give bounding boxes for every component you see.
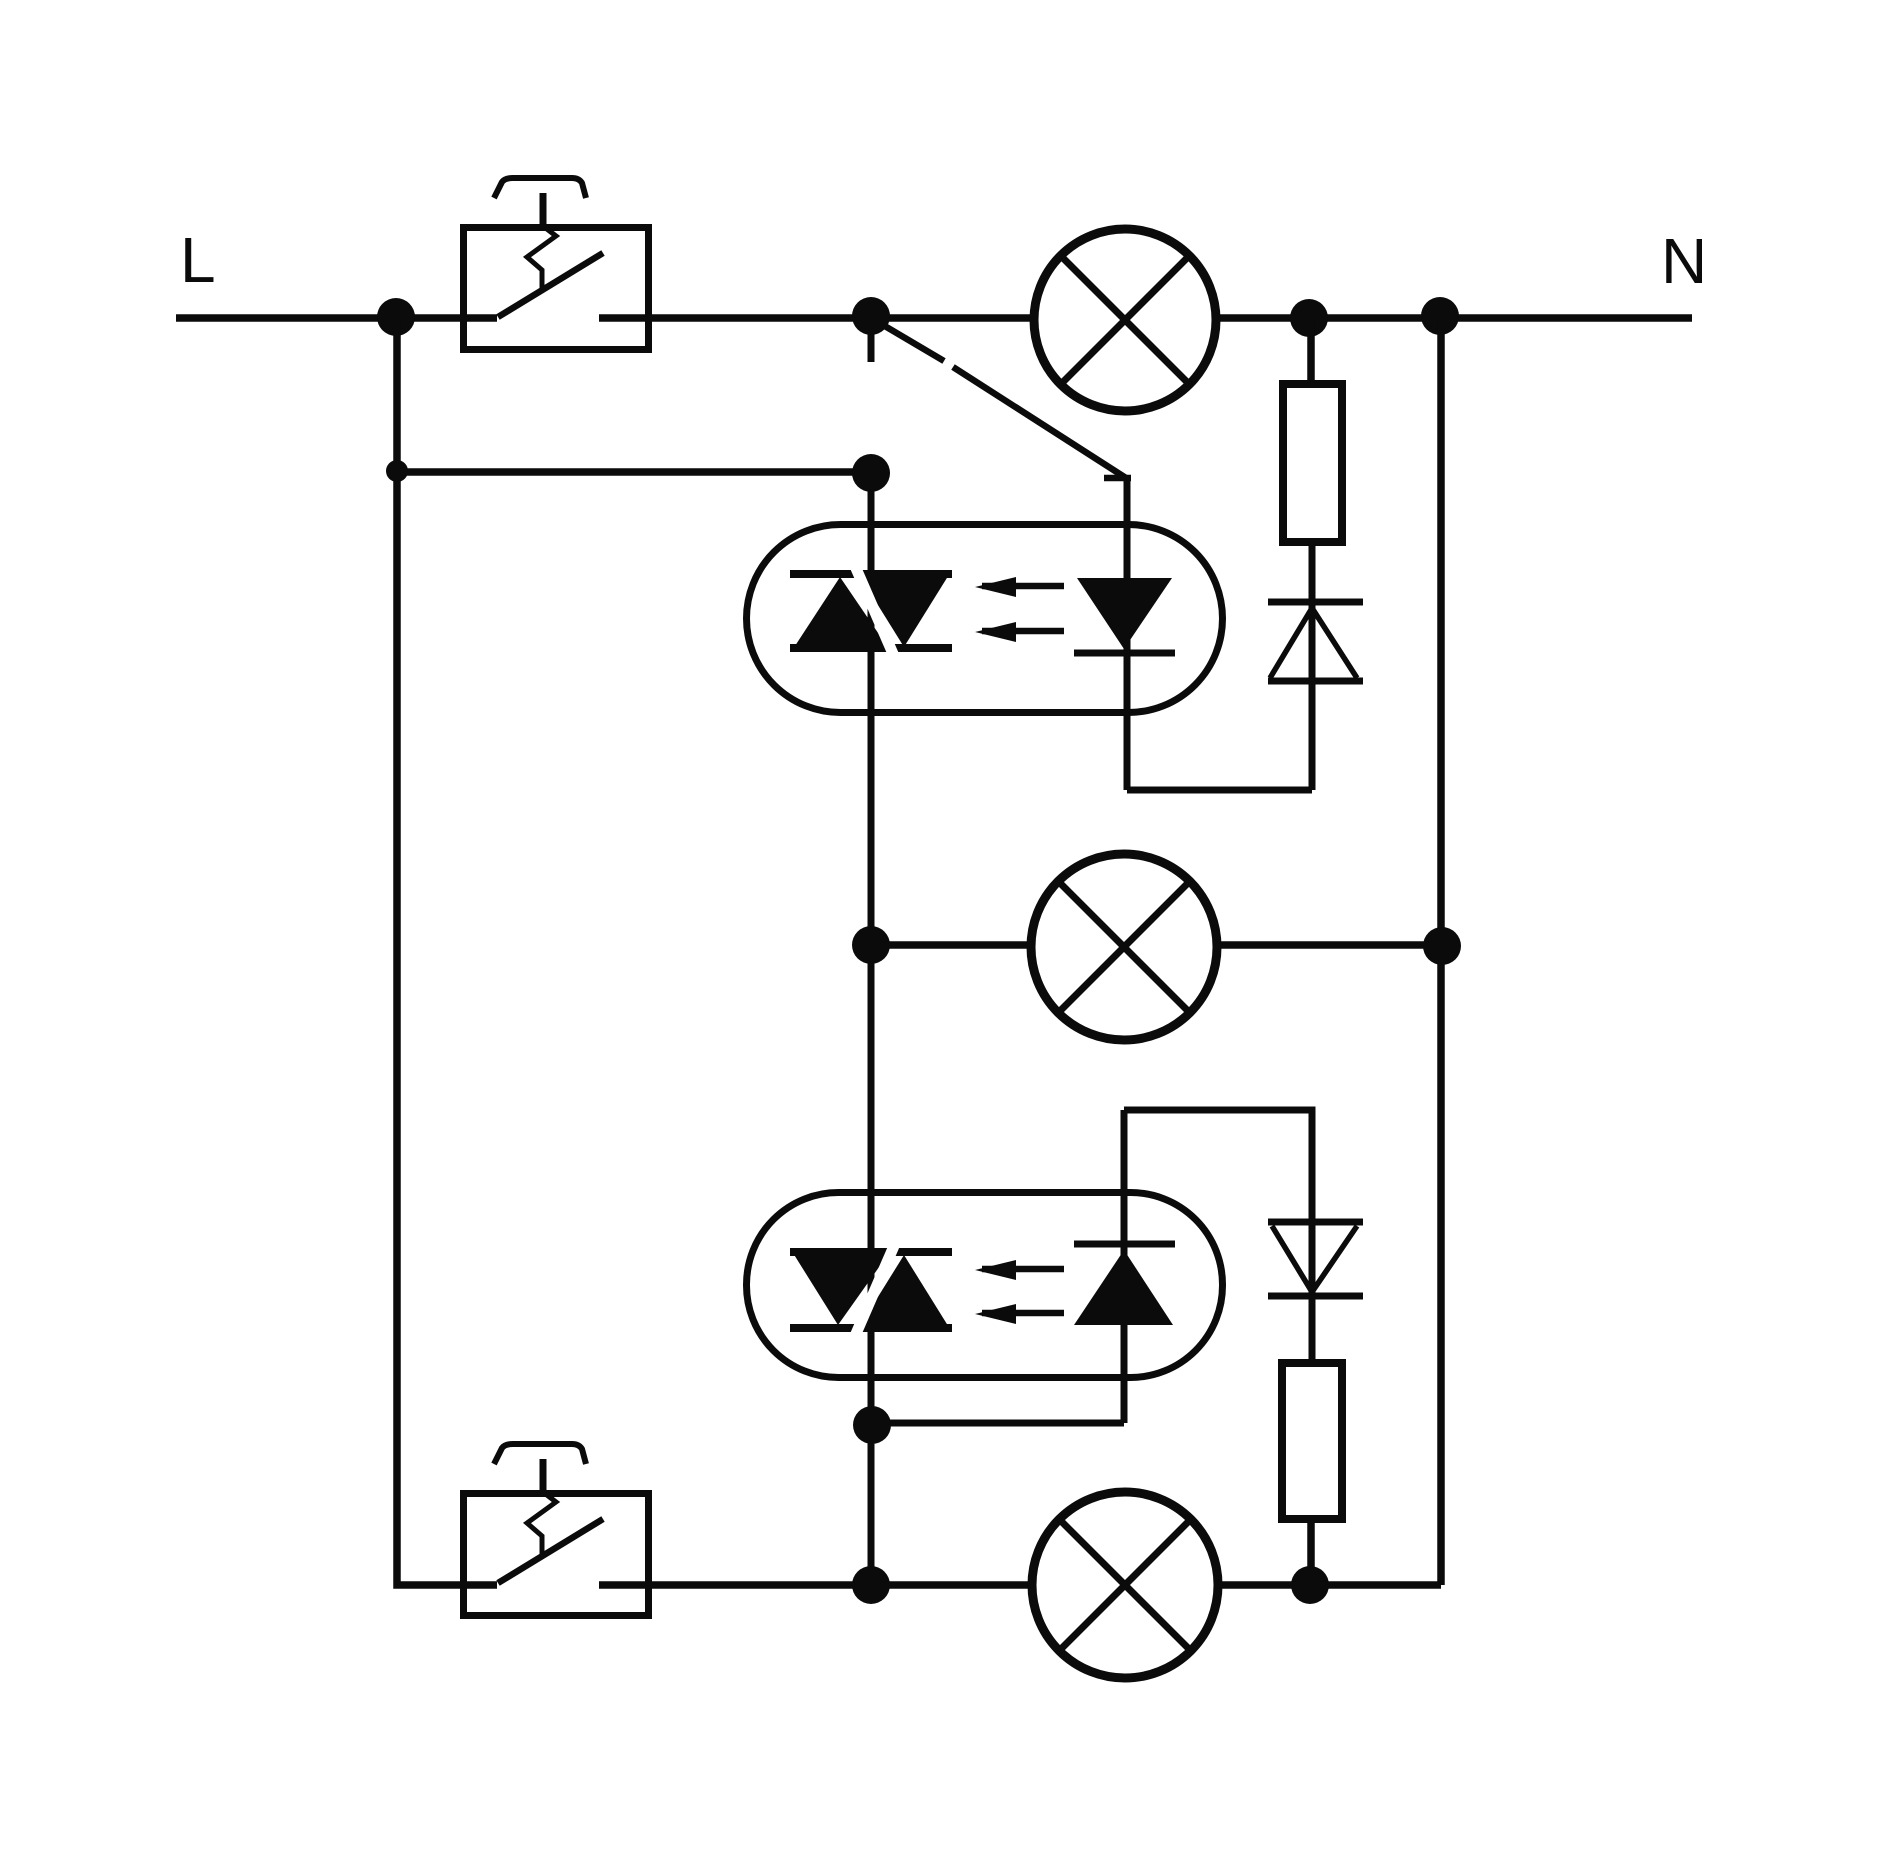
junction dot top of resistor R1 [1290, 299, 1328, 337]
triac U1 bottom bar [790, 644, 952, 652]
diac D1 triangle [1270, 608, 1357, 678]
node small branch dot on left bus [386, 460, 408, 482]
U2 light arrow 2 [982, 1310, 1064, 1317]
LED U2 triangle (up) [1074, 1250, 1173, 1325]
changeover switch blade segment 1 [878, 322, 944, 361]
wire diac D1 to corner [1127, 787, 1312, 794]
wire second rail to opto bus [397, 468, 871, 476]
LED U1 triangle (down) [1077, 578, 1172, 649]
wire bottom rail right segment [1216, 1581, 1441, 1589]
junction dot bottom rail / mid bus [852, 1566, 890, 1604]
lamp E2 (middle) circle [1031, 854, 1217, 1040]
wire top L rail left segment [176, 314, 497, 322]
switch S1 actuator stub [540, 193, 547, 226]
svg-text:N: N [1661, 225, 1707, 297]
changeover switch blade segment 2 [953, 367, 1126, 478]
wire mid-bus stub below top dot (changeover common) [868, 316, 875, 362]
switch S1 blade [498, 253, 603, 317]
switch S1 spring [527, 226, 556, 291]
U1 light arrow 1 [982, 583, 1064, 590]
junction dot N bus / middle lamp [1423, 927, 1461, 965]
switch S2 (bottom pushbutton) [464, 1444, 649, 1616]
wire resistor R1 top lead [1307, 320, 1315, 380]
LED U2 cathode bar [1074, 1241, 1175, 1248]
changeover switch contact tick [1104, 475, 1131, 482]
wire top L rail middle segment [599, 314, 1036, 322]
wire middle lamp left lead [871, 941, 1031, 949]
diac D2 top bar [1268, 1219, 1363, 1226]
wire N bus vertical (right column) [1437, 318, 1445, 1585]
optocoupler U2 body (lower) [747, 1193, 1223, 1378]
triac U2 top bar [790, 1248, 952, 1256]
diac D1 bottom bar [1268, 678, 1363, 685]
wire mid bus through U1 to middle lamp [868, 473, 875, 945]
resistor R2 [1282, 1363, 1342, 1519]
switch S2 blade [498, 1519, 603, 1583]
junction dot second rail / mid bus [852, 454, 890, 492]
switch S1 box [464, 228, 649, 350]
wire U2 LED column [1121, 1110, 1128, 1423]
wire left bus (L column down to bottom switch) [397, 318, 497, 1585]
lamp E3 cross [1059, 1519, 1191, 1651]
triac U2 down triangle [793, 1253, 889, 1325]
lamp E2 cross [1058, 881, 1190, 1013]
U2 light arrow 1 [982, 1266, 1064, 1273]
diac D1 top bar [1268, 599, 1363, 606]
wire resistor R1 bottom lead through diac D1 [1309, 542, 1316, 790]
switch S1 actuator arc [494, 178, 586, 198]
triac U1 top bar [790, 570, 952, 578]
lamp E3 (bottom) circle [1032, 1492, 1218, 1678]
switch S2 spring [527, 1492, 556, 1557]
switch S2 actuator arc [494, 1444, 586, 1464]
wire U2 loop top (LED to diac D2) [1124, 1110, 1312, 1363]
wire mid bus lower tap to bottom rail [868, 1425, 875, 1585]
wire U1 LED column (from changeover contact down through LED) [1124, 481, 1131, 790]
wire lower tap to U2 LED [872, 1420, 1124, 1427]
junction dot mid bus / middle lamp [852, 926, 890, 964]
triac U1 down triangle [858, 573, 950, 647]
junction dot at L branch [377, 298, 415, 336]
triac U2 up triangle [858, 1255, 950, 1329]
wire resistor R2 bottom lead [1307, 1519, 1315, 1585]
junction dot top of N bus [1421, 297, 1459, 335]
diac D2 triangle [1272, 1226, 1357, 1292]
diac D2 bottom bar [1268, 1293, 1363, 1300]
junction dot lower tap on mid bus [853, 1406, 891, 1444]
triac U1 up triangle [793, 577, 889, 649]
triac U1 white separation [855, 566, 894, 656]
switch S1 (top pushbutton) [464, 178, 649, 350]
optocoupler U1 body (upper) [747, 525, 1223, 713]
svg-text:L: L [180, 224, 216, 296]
resistor R1 [1283, 384, 1342, 542]
junction dot top of mid bus [852, 297, 890, 335]
lamp E1 (top) circle [1034, 229, 1216, 411]
triac U2 white separation [855, 1246, 894, 1336]
U1 light arrow 2 [982, 628, 1064, 635]
junction dot bottom rail / resistor R2 [1291, 1566, 1329, 1604]
wire middle lamp right lead [1217, 941, 1442, 949]
switch S2 box [464, 1494, 649, 1616]
triac U2 bottom bar [790, 1324, 952, 1332]
switch S2 actuator stub [540, 1459, 547, 1492]
wire mid bus middle lamp to lower tap [868, 945, 875, 1425]
wire top N rail right segment [1214, 314, 1692, 322]
LED U1 cathode bar [1074, 650, 1175, 657]
lamp E1 cross [1061, 256, 1189, 384]
wire bottom rail middle segment [599, 1581, 1032, 1589]
